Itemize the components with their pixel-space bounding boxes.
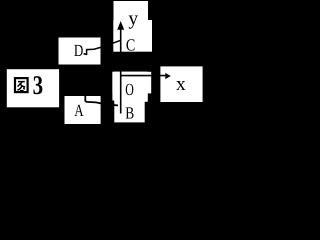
svg-text:B: B: [125, 104, 134, 123]
svg-text:C: C: [126, 35, 135, 54]
svg-text:y: y: [128, 9, 138, 30]
svg-text:A: A: [74, 101, 84, 120]
svg-text:O: O: [125, 80, 134, 99]
svg-text:3: 3: [33, 70, 44, 100]
svg-text:x: x: [176, 74, 186, 95]
svg-text:D: D: [74, 41, 83, 60]
